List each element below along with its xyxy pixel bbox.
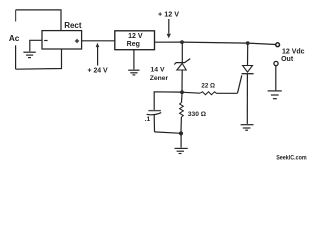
svg-text:Zener: Zener [150, 75, 169, 82]
ground: regulator ground [128, 70, 139, 75]
capacitor C1: curved bottom plate [147, 113, 162, 115]
node T2: output return terminal, open circle [274, 61, 278, 65]
regulator U1: 12 V Reg box [115, 31, 155, 50]
ground: output return ground [268, 91, 282, 99]
rectifier: Rect bridge box [42, 31, 82, 49]
svg-text:12 Vdc: 12 Vdc [282, 48, 305, 55]
wire: AC loop left side upper stub [15, 10, 17, 22]
resistor R1: 22 ohm horizontal zigzag [200, 92, 216, 95]
wire: node N2 to ground [180, 133, 182, 147]
wire: zener anode down to node N1 [181, 70, 183, 90]
svg-text:.1: .1 [145, 116, 151, 123]
wire: resistor R1 to SCR gate bend [217, 92, 238, 94]
svg-text:Out: Out [281, 56, 294, 63]
wire: capacitor bottom lead [153, 115, 155, 132]
wire: return terminal to ground [275, 66, 277, 90]
svg-text:SeekIC.com: SeekIC.com [276, 155, 307, 161]
wire: regulator ground lead [133, 50, 135, 70]
wire: AC loop left side lower segment [15, 45, 17, 69]
resistor R2: 330 ohm vertical zigzag [180, 103, 184, 118]
svg-text:+ 12 V: + 12 V [158, 12, 179, 19]
svg-text:Rect: Rect [64, 21, 82, 30]
svg-text:+ 24 V: + 24 V [88, 67, 109, 74]
svg-text:22 Ω: 22 Ω [201, 83, 215, 90]
pin: rectifier plus terminal [75, 39, 79, 43]
wire: SCR cathode down to ground [246, 74, 248, 124]
svg-text:12 V: 12 V [128, 33, 143, 40]
wire: rectifier minus to ground tee [30, 40, 42, 51]
ground: bottom network ground [175, 148, 188, 153]
zener diode D1: 14 V zener, cathode bar with bent ends [174, 59, 190, 65]
wire: capacitor bottom to node N2 [155, 132, 182, 133]
node N1: zener anode junction [180, 90, 184, 94]
ground: AC/rectifier negative ground [23, 52, 35, 57]
ground: SCR cathode ground [241, 125, 254, 131]
thyristor Q1: SCR crowbar triangle [243, 66, 253, 73]
wire: node N1 down to resistor R2 [181, 94, 184, 103]
wire: SCR gate diagonal lead [238, 75, 242, 93]
svg-text:14 V: 14 V [151, 67, 165, 74]
wire: junction J1 down to zener cathode [181, 44, 183, 63]
wire: node N1 left then down to capacitor [154, 92, 180, 110]
node N2: bottom junction of cap, R2 and ground [179, 131, 183, 135]
wire: +12V rail from regulator output to output terminal [155, 42, 276, 44]
wire: AC loop top run [16, 10, 61, 31]
wire: node N1 right to resistor R1 [184, 91, 201, 94]
wire: AC loop bottom run [16, 49, 62, 69]
node: +12 V arrow marker [168, 19, 170, 34]
svg-text:Ac: Ac [9, 34, 20, 43]
node J1: rail junction to zener [180, 40, 184, 44]
node: +24 V arrow marker [97, 47, 99, 66]
wire: SCR anode from rail junction J2 [247, 45, 249, 66]
pin: rectifier minus terminal [44, 40, 48, 42]
thyristor Q1: cathode bar [242, 73, 254, 75]
svg-text:Reg: Reg [127, 41, 140, 48]
node T1: 12 Vdc output terminal, open circle [276, 43, 280, 47]
wire: +24V rail, rectifier output to regulator input [82, 40, 115, 42]
capacitor C1: .1 polarized, straight top plate [148, 110, 161, 112]
node J2: rail junction to SCR anode [246, 41, 250, 45]
svg-text:330 Ω: 330 Ω [188, 111, 207, 118]
wire: resistor R2 bottom to node N2 [180, 117, 182, 132]
